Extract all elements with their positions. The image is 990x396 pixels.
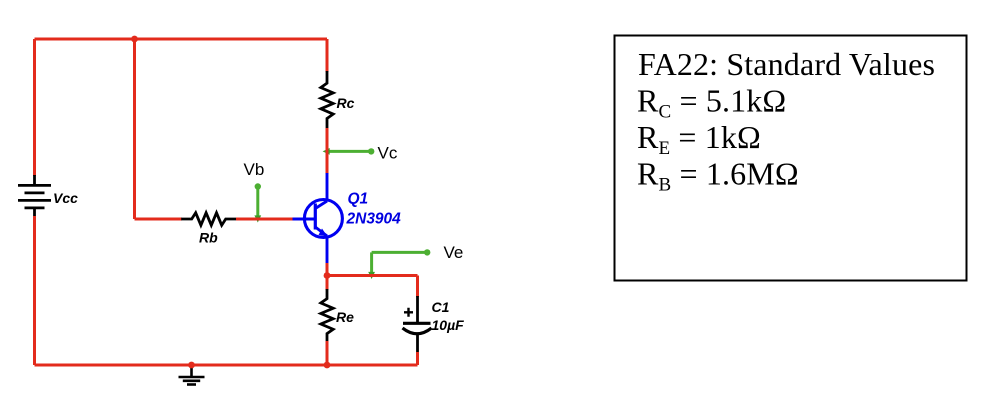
svg-text:Q1: Q1 — [348, 191, 369, 208]
wire: base row right of Rb — [236, 218, 293, 221]
resistor Rb — [181, 213, 236, 225]
probe Ve: tip dot — [424, 249, 430, 255]
transistor Q1 circle — [304, 200, 342, 238]
transistor Q1 collector stroke — [315, 201, 327, 209]
wire: left vertical lower (Vcc- to bottom rail) — [33, 216, 36, 365]
probe Vc: tip dot — [368, 148, 374, 154]
probe Ve: junction arrowhead on emitter wire — [368, 272, 375, 279]
wire: collector column red lower (Rc to probe/transistor) — [326, 128, 329, 174]
probe Vc: green wire — [327, 150, 371, 153]
wire: left vertical upper (Vcc+ to top rail) — [33, 39, 36, 176]
svg-text:10µF: 10µF — [432, 317, 465, 333]
capacitor C1 bottom lead — [416, 335, 419, 354]
wire: collector column overlap at Vc junction — [326, 145, 329, 158]
probe Ve: green horizontal — [372, 251, 427, 254]
svg-text:Rc: Rc — [337, 95, 355, 111]
probe Vb: green stem — [256, 187, 259, 219]
svg-text:Vb: Vb — [244, 160, 265, 179]
svg-text:C1: C1 — [432, 299, 450, 315]
ground symbol — [179, 365, 205, 385]
junction dot: ground to bottom rail — [188, 362, 195, 369]
capacitor C1 bottom curved plate — [403, 328, 432, 334]
svg-text:Rb: Rb — [199, 230, 218, 246]
probe Ve: green stem — [370, 252, 373, 275]
wire: top horizontal Vcc rail — [35, 38, 328, 41]
junction dot: top rail / base column — [131, 36, 138, 43]
svg-text:Vc: Vc — [378, 144, 398, 163]
battery V1 Vcc — [18, 175, 51, 217]
wire: base lead blue — [293, 218, 316, 221]
transistor Q1 emitter arrowhead — [319, 229, 328, 237]
transistor Q1 emitter stroke — [315, 227, 327, 236]
capacitor C1 plus sign — [404, 308, 413, 317]
wire: C1 column red lower — [416, 352, 419, 365]
resistor Rc — [321, 71, 333, 129]
resistor Re — [321, 289, 333, 342]
wire: base column vertical — [133, 39, 136, 219]
probe Vb: junction arrowhead on base wire — [254, 215, 261, 222]
transistor Q1 base bar — [314, 204, 317, 230]
wire: base row left of Rb — [135, 218, 183, 221]
wire: emitter node horizontal to C1 — [327, 274, 418, 277]
svg-text:Re: Re — [336, 309, 354, 325]
wire: emitter lead blue — [326, 236, 329, 264]
svg-text:RE = 1kΩ: RE = 1kΩ — [637, 119, 761, 159]
svg-text:FA22: Standard Values: FA22: Standard Values — [638, 46, 935, 82]
wire: Re column red upper — [326, 276, 329, 291]
capacitor C1 top plate — [403, 322, 431, 325]
wire: emitter red stub — [326, 263, 329, 276]
capacitor C1 top lead — [416, 296, 419, 322]
annotation box: standard values — [615, 36, 967, 281]
svg-text:2N3904: 2N3904 — [346, 211, 402, 228]
wire: collector column red upper (rail to Rc) — [326, 39, 329, 72]
svg-text:Vcc: Vcc — [53, 190, 78, 206]
wire: emitter row overlap at Ve junction — [364, 274, 379, 277]
svg-text:Ve: Ve — [444, 243, 464, 262]
junction dot: emitter node — [324, 272, 331, 279]
probe Vc: junction arrowhead on collector wire — [323, 148, 330, 155]
wire: base row overlap at Vb junction — [251, 218, 265, 221]
wire: C1 column red upper — [416, 276, 419, 298]
wire: bottom ground rail — [35, 364, 418, 367]
wire: Re column red lower — [326, 341, 329, 365]
probe Vb: tip dot — [255, 183, 261, 189]
junction dot: Re bottom node — [324, 362, 331, 369]
wire: collector lead blue — [326, 173, 329, 201]
